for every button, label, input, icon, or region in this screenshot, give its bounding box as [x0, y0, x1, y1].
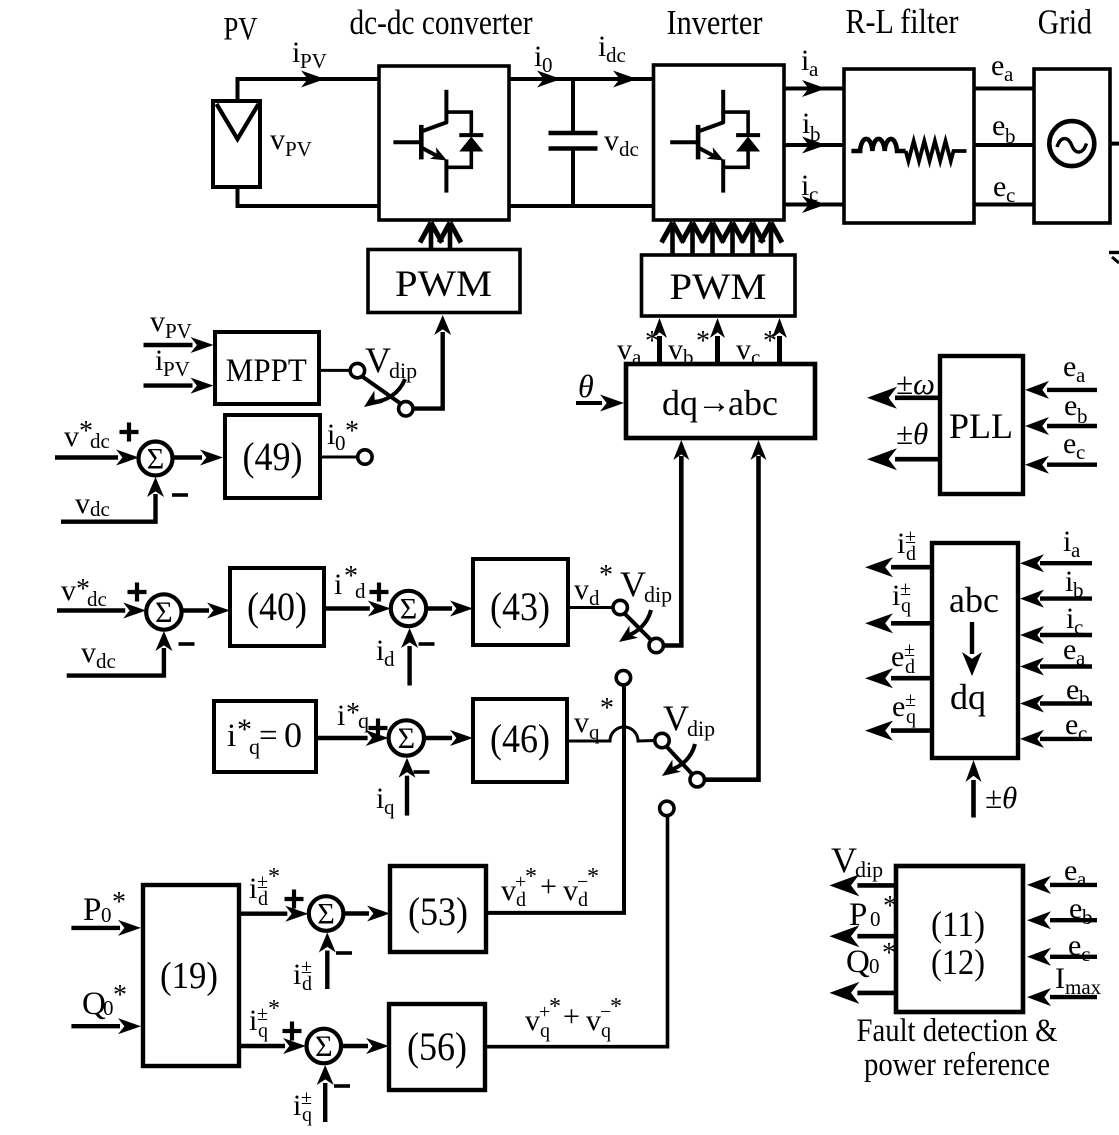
label iq* ref — [337, 698, 369, 733]
svg-text:dc: dc — [606, 43, 626, 67]
arrow eq+- out of abc-dq — [865, 721, 932, 741]
svg-text:dc: dc — [96, 649, 116, 673]
svg-text:e: e — [1068, 929, 1081, 962]
block PWM2 — [642, 255, 796, 316]
svg-text:i: i — [334, 568, 342, 601]
wire ia to abc-dq — [1020, 554, 1092, 572]
wire ec to abc-dq — [1020, 730, 1092, 748]
svg-text:v: v — [586, 1004, 601, 1037]
svg-text:V: V — [831, 840, 857, 880]
label vdc fb2 — [81, 636, 116, 673]
svg-text:v: v — [75, 487, 90, 520]
svg-text:e: e — [1065, 708, 1078, 741]
svg-text:I: I — [1055, 962, 1065, 995]
svg-text:b: b — [1073, 578, 1084, 602]
label vd+* sum — [501, 864, 599, 911]
arrow (19) to sum6 — [239, 1038, 306, 1054]
label pm-omega — [896, 366, 935, 401]
block abc-dq — [932, 543, 1018, 758]
label vPV in — [150, 305, 192, 343]
svg-text:dip: dip — [687, 716, 715, 741]
wire MPPT out — [319, 369, 351, 372]
label Vdip S1 — [365, 340, 417, 383]
block (53) — [390, 866, 486, 952]
svg-text:d: d — [355, 579, 366, 603]
label ed+- abc-dq — [891, 639, 915, 678]
block (49) — [225, 415, 320, 498]
svg-text:*: * — [112, 887, 126, 918]
label vq+* sum — [525, 994, 622, 1042]
svg-text:PV: PV — [285, 137, 312, 161]
svg-text:Grid: Grid — [1038, 2, 1092, 41]
svg-text:e: e — [1064, 854, 1077, 887]
gate arrows PWM1 to dc-dc — [420, 223, 461, 250]
svg-text:P: P — [849, 897, 867, 933]
node branch to S2 — [616, 671, 630, 685]
label pm-theta abc-dq — [985, 780, 1017, 815]
arrow (40) to sum3 — [324, 601, 391, 617]
switch S3 contact a — [655, 733, 669, 747]
svg-text:e: e — [892, 690, 905, 723]
svg-text:v: v — [150, 305, 165, 338]
wire (49) out — [320, 456, 358, 459]
label ea fault — [1064, 854, 1087, 891]
svg-text:Σ: Σ — [317, 898, 334, 931]
svg-text:±: ± — [301, 1087, 312, 1109]
block (43) — [473, 559, 568, 645]
caption fault detection — [857, 1013, 1058, 1083]
block (46) — [473, 699, 567, 782]
svg-text:(46): (46) — [490, 716, 550, 761]
label eq+- abc-dq — [892, 689, 916, 728]
svg-text:q: q — [384, 795, 395, 819]
minus sum6 — [334, 1084, 350, 1088]
svg-text:*: * — [696, 326, 710, 357]
label ea — [991, 49, 1014, 86]
svg-text:±ω: ±ω — [896, 366, 935, 401]
svg-text:dc: dc — [619, 137, 639, 161]
svg-text:i: i — [227, 718, 236, 754]
svg-text:power reference: power reference — [864, 1047, 1050, 1083]
svg-text:→: → — [697, 384, 731, 421]
label P0* out — [849, 891, 897, 933]
minus sum3 — [419, 642, 435, 646]
svg-text:V: V — [620, 564, 646, 604]
wire S2 to dq-abc — [663, 440, 690, 646]
label vdc* ref1 — [64, 416, 110, 453]
svg-text:e: e — [1063, 350, 1076, 383]
svg-text:(12): (12) — [931, 942, 985, 982]
svg-text:v: v — [668, 333, 683, 366]
label id+- abc-dq — [897, 526, 916, 565]
svg-text:*: * — [763, 326, 777, 357]
switch S1 arm — [362, 376, 401, 404]
svg-text:θ: θ — [578, 368, 594, 404]
svg-text:*: * — [268, 864, 280, 890]
stub mark bottom right — [1109, 253, 1119, 264]
wire ec filter to grid — [974, 203, 1034, 207]
svg-text:P: P — [83, 892, 101, 928]
label id+- fb — [293, 956, 312, 995]
svg-text:dc: dc — [87, 587, 107, 611]
label iq+- abc-dq — [892, 578, 911, 617]
label vdc fb1 — [75, 487, 110, 521]
svg-text:q: q — [540, 1020, 550, 1042]
svg-text:(19): (19) — [160, 955, 218, 997]
svg-text:a: a — [1077, 867, 1087, 891]
label eb — [992, 109, 1016, 148]
label eb fault — [1069, 892, 1093, 929]
svg-text:0: 0 — [870, 907, 881, 931]
label theta — [578, 368, 594, 404]
wire ia inverter to filter — [784, 80, 844, 97]
svg-text:0: 0 — [103, 996, 114, 1020]
wire eb to PLL — [1025, 417, 1097, 435]
arrow pm-omega out — [867, 387, 940, 409]
IGBT Q2 — [670, 90, 724, 193]
svg-text:PWM: PWM — [670, 267, 767, 308]
arrow id+- out of abc-dq — [865, 557, 932, 577]
svg-text:Inverter: Inverter — [667, 3, 763, 42]
label eb abc-dq — [1066, 673, 1090, 710]
label Grid — [1038, 2, 1092, 41]
minus sum4 — [414, 770, 430, 774]
svg-text:Fault detection &: Fault detection & — [857, 1013, 1058, 1049]
svg-text:PWM: PWM — [395, 264, 492, 305]
svg-text:max: max — [1065, 975, 1102, 999]
IGBT Q1 — [393, 90, 447, 193]
svg-text:v: v — [617, 333, 632, 366]
svg-text:±: ± — [900, 578, 911, 600]
sum junction sum2 — [146, 594, 181, 629]
label iq+- ref — [249, 996, 280, 1042]
sum junction sum6 — [307, 1029, 342, 1064]
wire S1 to PWM1 — [412, 315, 452, 409]
svg-text:R-L filter: R-L filter — [846, 2, 959, 41]
svg-text:v: v — [61, 574, 76, 607]
svg-text:0: 0 — [542, 53, 553, 77]
label va* — [617, 326, 659, 369]
block dq-abc — [626, 364, 815, 438]
label Q0* out — [846, 938, 896, 980]
svg-text:e: e — [992, 109, 1005, 142]
arrow Q0* out — [829, 982, 896, 1004]
arrow Q0* into (19) — [71, 1018, 141, 1034]
svg-text:±: ± — [257, 871, 268, 893]
svg-text:(53): (53) — [408, 889, 468, 934]
svg-text:e: e — [1063, 633, 1076, 666]
minus sum2 — [179, 642, 195, 646]
svg-text:c: c — [1006, 183, 1015, 207]
wire ib to abc-dq — [1020, 590, 1092, 608]
switch S2 contact a — [613, 600, 627, 614]
svg-text:a: a — [809, 57, 819, 81]
svg-text:e: e — [1064, 389, 1077, 422]
label vdc — [604, 124, 639, 161]
svg-text:v: v — [736, 333, 751, 366]
wire vdc fb1 — [61, 477, 164, 522]
label Vdip S3 — [663, 698, 715, 741]
block Inverter — [654, 65, 785, 220]
svg-text:*: * — [268, 996, 280, 1022]
wire ea to PLL — [1025, 381, 1097, 399]
svg-text:c: c — [1081, 942, 1090, 966]
wire dc-dc to inverter bottom — [509, 204, 654, 208]
svg-text:±: ± — [905, 689, 916, 711]
svg-text:v: v — [270, 123, 285, 156]
svg-text:dc: dc — [90, 429, 110, 453]
switch S3 contact c — [660, 801, 674, 815]
svg-text:PLL: PLL — [949, 406, 1013, 446]
svg-text:e: e — [993, 170, 1006, 203]
label iq fb — [376, 782, 395, 819]
capacitor C1 — [549, 79, 598, 206]
block R-L filter — [844, 69, 974, 223]
label iq+- fb — [293, 1087, 312, 1126]
arrow sum1 to (49) — [173, 450, 224, 466]
arrow iPV into MPPT — [144, 378, 214, 394]
block (40) — [230, 568, 324, 646]
plus sum2 — [128, 583, 147, 602]
arrow iq+- out of abc-dq — [865, 613, 932, 633]
label id fb — [376, 634, 395, 671]
svg-text:(49): (49) — [243, 434, 303, 479]
switch S3 arm — [667, 747, 693, 775]
switch S1 action arrow — [364, 379, 405, 407]
svg-text:dq: dq — [950, 677, 986, 717]
svg-text:q: q — [358, 708, 369, 733]
arrow into sum2 — [57, 603, 146, 619]
arrow vb* to PWM2 — [710, 318, 725, 364]
plus sum5 — [285, 890, 304, 909]
svg-text:PV: PV — [300, 49, 327, 73]
wire ea to fault block — [1027, 876, 1097, 894]
label vq* — [574, 693, 614, 744]
label ec abc-dq — [1065, 708, 1087, 745]
arrow sum3 to (43) — [426, 601, 473, 617]
svg-text:a: a — [1076, 646, 1086, 670]
svg-text:dc-dc converter: dc-dc converter — [350, 3, 533, 42]
switch S2 contact b — [649, 638, 663, 652]
label vd* — [574, 560, 613, 610]
arrow iq fb — [399, 758, 416, 816]
sum junction sum3 — [391, 591, 426, 626]
label Inverter — [667, 3, 763, 42]
block PLL — [940, 356, 1023, 494]
arrow P0* into (19) — [71, 920, 141, 936]
svg-text:0: 0 — [284, 715, 302, 755]
sum junction sum1 — [139, 442, 173, 476]
svg-text:0: 0 — [335, 431, 346, 455]
arrow Vdip out — [829, 874, 897, 896]
arrow sum4 to (46) — [424, 730, 473, 746]
arrow pm-theta out — [867, 448, 940, 470]
wire ec to PLL — [1025, 456, 1097, 474]
label ea abc-dq — [1063, 633, 1086, 670]
svg-text:*: * — [113, 980, 127, 1011]
label iPV — [292, 36, 327, 73]
label pm-theta — [896, 416, 928, 451]
svg-text:*: * — [525, 864, 537, 890]
label Q0* — [82, 980, 127, 1022]
svg-text:(11): (11) — [931, 904, 985, 944]
svg-text:Σ: Σ — [155, 596, 172, 629]
svg-text:=: = — [259, 718, 278, 754]
svg-text:PV: PV — [224, 12, 258, 48]
svg-text:(43): (43) — [490, 584, 550, 629]
wire ic to abc-dq — [1020, 626, 1092, 644]
minus sum1 — [172, 493, 188, 497]
block dc-dc converter — [379, 66, 509, 220]
svg-text:dq: dq — [662, 383, 698, 423]
diode D2 — [723, 112, 760, 167]
resistor R1 — [906, 141, 967, 161]
wire eb to abc-dq — [1020, 695, 1092, 713]
block MPPT — [215, 332, 319, 404]
switch S3 contact b — [690, 773, 704, 787]
wire ea to abc-dq — [1020, 658, 1092, 676]
label ec — [993, 170, 1015, 207]
arrow sum5 to (53) — [343, 906, 390, 922]
block Grid — [1034, 69, 1110, 223]
svg-text:v: v — [574, 706, 589, 739]
svg-text:abc: abc — [949, 580, 999, 620]
arrow ed+- out of abc-dq — [865, 668, 932, 688]
svg-text:±: ± — [904, 639, 915, 661]
label ic — [801, 169, 818, 206]
wire vdc fb2 — [67, 631, 173, 676]
wire ec to fault block — [1027, 948, 1097, 966]
label eb PLL — [1064, 389, 1088, 428]
label ic abc-dq — [1066, 602, 1083, 639]
label Vdip S2 — [620, 564, 672, 607]
svg-text:±: ± — [905, 526, 916, 548]
arrow sum6 to (56) — [341, 1038, 389, 1054]
svg-text:*: * — [600, 693, 614, 724]
wire ea filter to grid — [974, 87, 1034, 91]
svg-text:b: b — [1082, 905, 1093, 929]
svg-text:±θ: ±θ — [985, 780, 1017, 815]
svg-text:a: a — [1004, 62, 1014, 86]
arrow iq+- fb — [317, 1065, 334, 1122]
svg-text:e: e — [891, 640, 904, 673]
svg-text:V: V — [365, 340, 391, 380]
wire ic inverter to filter — [784, 196, 844, 213]
svg-text:e: e — [1066, 673, 1079, 706]
svg-text:*: * — [610, 994, 622, 1020]
svg-text:±θ: ±θ — [896, 416, 928, 451]
arrow va* to PWM2 — [652, 318, 667, 364]
sum junction sum4 — [389, 720, 424, 755]
svg-text:PV: PV — [163, 357, 190, 381]
switch S2 action arrow — [619, 610, 651, 642]
svg-text:e: e — [1063, 427, 1076, 460]
svg-text:(40): (40) — [247, 584, 307, 629]
svg-text:dip: dip — [644, 582, 672, 607]
arrow sum2 to (40) — [182, 603, 230, 619]
label i0 — [534, 40, 553, 77]
wire (43) out — [568, 606, 613, 609]
label id* ref — [334, 561, 366, 603]
svg-text:v: v — [563, 874, 578, 907]
label ec fault — [1068, 929, 1090, 966]
label R-L filter — [846, 2, 959, 41]
wire eb filter to grid — [974, 143, 1034, 147]
svg-text:c: c — [809, 182, 818, 206]
block (19) — [143, 885, 239, 1066]
switch S2 arm — [625, 614, 652, 641]
node i0* contact — [358, 450, 372, 464]
svg-text:dip: dip — [389, 358, 417, 383]
label ec PLL — [1063, 427, 1085, 464]
svg-text:abc: abc — [728, 383, 778, 423]
svg-text:±: ± — [301, 956, 312, 978]
label P0* — [83, 887, 126, 928]
wire S3 to dq-abc — [704, 440, 767, 780]
wire contact c down — [485, 815, 668, 1046]
label idc — [598, 30, 626, 67]
switch S3 action arrow — [662, 744, 695, 776]
svg-text:b: b — [1079, 686, 1090, 710]
svg-text:*: * — [883, 891, 897, 922]
svg-text:0: 0 — [101, 903, 112, 927]
svg-text:a: a — [1071, 538, 1081, 562]
svg-text:q: q — [589, 720, 600, 744]
svg-text:*: * — [587, 864, 599, 890]
label ia abc-dq — [1063, 525, 1081, 562]
svg-text:b: b — [1077, 404, 1088, 428]
svg-text:b: b — [810, 122, 821, 146]
label ib abc-dq — [1065, 565, 1084, 602]
label vb* — [668, 326, 710, 369]
label ib — [802, 107, 821, 146]
svg-text:e: e — [991, 49, 1004, 82]
svg-text:V: V — [663, 698, 689, 738]
svg-text:(56): (56) — [407, 1024, 467, 1069]
svg-text:c: c — [1076, 440, 1085, 464]
sum junction sum5 — [309, 896, 344, 931]
svg-text:e: e — [1069, 892, 1082, 925]
svg-text:a: a — [1076, 363, 1086, 387]
svg-text:Σ: Σ — [147, 443, 164, 476]
arrow iq*0 to sum4 — [316, 730, 389, 746]
arrow i0 — [537, 71, 561, 88]
label Imax fault — [1055, 962, 1102, 999]
block PWM1 — [368, 250, 520, 313]
svg-text:*: * — [882, 938, 896, 969]
plus sum3 — [370, 583, 389, 602]
plus sum6 — [283, 1022, 302, 1041]
svg-text:v: v — [604, 124, 619, 157]
label vdc* ref2 — [61, 574, 107, 611]
wire grid right — [1110, 142, 1119, 146]
label Vdip out — [831, 840, 883, 882]
svg-text:PV: PV — [165, 319, 192, 343]
inductor L1 — [851, 139, 905, 151]
svg-text:v: v — [525, 1004, 540, 1037]
arrow vc* to PWM2 — [772, 318, 787, 364]
wire ib inverter to filter — [784, 137, 844, 154]
arrow theta into dq-abc — [576, 395, 624, 412]
wire eb to fault block — [1027, 911, 1097, 929]
svg-text:0: 0 — [869, 954, 880, 978]
wire dc-dc to inverter top — [509, 77, 654, 81]
block iq*=0 — [214, 701, 316, 772]
wire branch down — [486, 685, 624, 913]
arrow id+- fb — [319, 933, 336, 990]
svg-text:+: + — [563, 1000, 580, 1033]
svg-text:MPPT: MPPT — [226, 353, 307, 389]
